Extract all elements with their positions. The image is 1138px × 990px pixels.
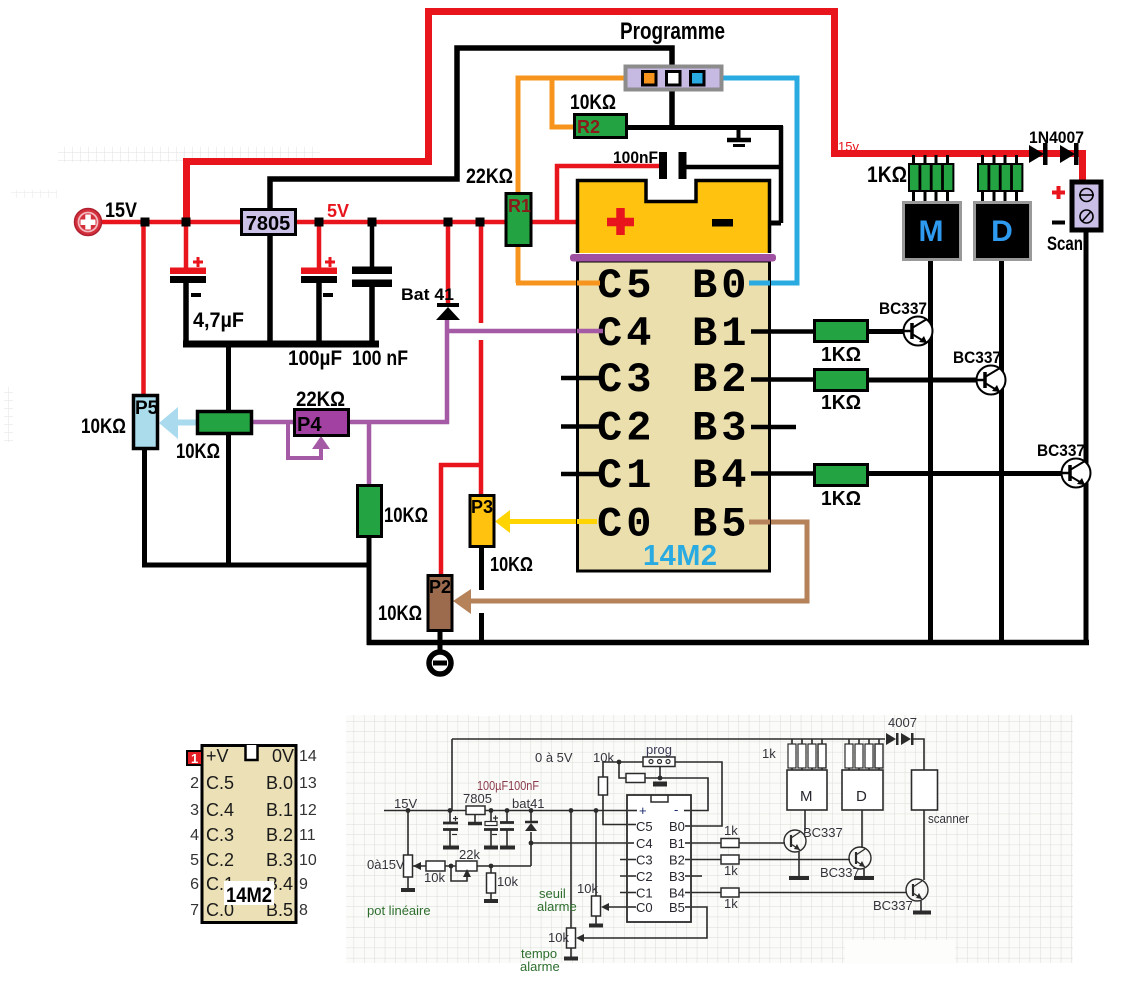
wire: D collector and emitter	[862, 810, 864, 877]
svg-text:BC337: BC337	[820, 865, 860, 880]
svg-text:10KΩ: 10KΩ	[570, 91, 616, 114]
label 15V	[105, 199, 137, 222]
svg-text:B5: B5	[669, 900, 685, 915]
diode 1N4007 (first)	[1029, 143, 1048, 165]
svg-text:1KΩ: 1KΩ	[867, 162, 907, 187]
transistor BC337 (B2)	[953, 348, 1006, 395]
svg-text:+: +	[639, 803, 647, 818]
wire: yellow C0 to P3 arrow	[495, 510, 597, 533]
transistor BC337 (B1)	[879, 299, 933, 346]
resistor 10k vertical	[487, 873, 496, 893]
svg-text:C1: C1	[597, 452, 655, 500]
wire: 22k wiper loop	[451, 866, 467, 881]
svg-text:1k: 1k	[724, 823, 738, 838]
wire: top line diodes to scanner	[913, 739, 924, 770]
IC 14M2 battery header	[578, 181, 770, 254]
svg-text:7805: 7805	[246, 213, 291, 235]
svg-text:C3: C3	[636, 853, 653, 868]
svg-text:100µF100nF: 100µF100nF	[477, 778, 539, 793]
scan-paper artifact strip top	[11, 147, 320, 198]
wire: black 10K bottom to ground rail	[367, 537, 372, 645]
svg-text:BC337: BC337	[953, 348, 1001, 367]
wire: black P5 bottom	[142, 449, 147, 565]
svg-text:B.1: B.1	[266, 800, 293, 820]
svg-text:alarme: alarme	[520, 959, 560, 974]
pinout right pin names	[266, 746, 294, 920]
wire: black D collector column	[999, 259, 1004, 644]
wire: C pin stubs	[620, 860, 636, 893]
svg-text:B4: B4	[669, 886, 685, 901]
ground bars row	[443, 846, 515, 850]
pot tempo alarme	[564, 928, 584, 959]
trimmer 22k	[456, 861, 477, 877]
ground bar 10k	[484, 899, 498, 903]
transistor BC337 (B4)	[1037, 441, 1091, 488]
wire: black 7805 center to ground bus	[267, 236, 273, 344]
transistor BC337 scanner (small)	[906, 879, 931, 913]
ground bar prog	[653, 782, 667, 787]
wire: C4 line	[531, 842, 633, 844]
scan-paper artifact strip left	[4, 387, 13, 442]
resistor 10K (horizontal, P5 feed)	[176, 412, 252, 464]
wire: red 15V/5V rail	[99, 220, 601, 225]
svg-text:BC337: BC337	[873, 898, 913, 913]
svg-text:15v: 15v	[838, 139, 859, 154]
wire: comb risers M	[792, 739, 822, 770]
svg-text:10KΩ: 10KΩ	[81, 415, 126, 438]
svg-text:22k: 22k	[459, 847, 480, 862]
svg-text:4007: 4007	[888, 715, 917, 730]
wire: C1 stub	[561, 472, 600, 477]
svg-text:15V: 15V	[394, 796, 417, 811]
pinout left pin names	[206, 746, 234, 920]
svg-text:P3: P3	[471, 497, 493, 517]
svg-text:BC337: BC337	[879, 299, 927, 318]
potentiometer P4 22K	[295, 388, 349, 436]
svg-text:100µF: 100µF	[288, 347, 342, 370]
svg-text:10KΩ: 10KΩ	[176, 440, 220, 463]
svg-text:C4: C4	[597, 310, 655, 358]
svg-text:1KΩ: 1KΩ	[821, 392, 861, 414]
label Scan	[1047, 234, 1083, 255]
resistor 10k to 22k link	[413, 865, 531, 867]
label 15v (small red)	[838, 139, 859, 154]
capacitor 100nF (small)	[500, 823, 514, 830]
svg-text:C2: C2	[597, 405, 655, 453]
pot 0a15V branch	[407, 811, 409, 890]
wire: cap2 leads	[490, 811, 492, 847]
IC minus terminal	[712, 219, 733, 227]
comb resistor network M (small)	[788, 744, 826, 768]
module D (small)	[842, 770, 883, 810]
pot seuil alarme	[589, 896, 609, 926]
svg-text:+V: +V	[206, 746, 229, 766]
potentiometer P3	[470, 496, 533, 577]
svg-text:B2: B2	[692, 356, 750, 404]
wire: blue serial-out net to B0	[703, 78, 797, 283]
pinout 14M2 name	[224, 881, 274, 907]
connector Programme (3-pin header)	[626, 67, 722, 90]
capacitor 100uF	[288, 257, 342, 370]
wire: orange programming serial-in net	[516, 78, 650, 283]
diode 1N4007 (second)	[1060, 143, 1079, 165]
svg-text:Scan: Scan	[1047, 234, 1083, 255]
svg-text:12: 12	[299, 802, 317, 819]
resistor R2 10K	[570, 91, 627, 138]
svg-text:pot linéaire: pot linéaire	[367, 903, 431, 918]
potentiometer P2	[378, 576, 452, 631]
IC pin labels column C	[597, 262, 655, 549]
wire: C5 net riser	[603, 762, 643, 825]
pot lineaire 0a15V	[404, 855, 422, 877]
connector Scan	[1072, 182, 1101, 230]
svg-text:C5: C5	[597, 262, 655, 310]
svg-text:C0: C0	[636, 900, 653, 915]
svg-text:BC337: BC337	[1037, 441, 1085, 460]
svg-text:scanner: scanner	[928, 811, 970, 826]
wire: brown B5 to P2 arrow	[453, 522, 807, 614]
svg-text:B.0: B.0	[266, 773, 293, 793]
label 14M2 (cyan)	[643, 540, 718, 572]
resistor 1k B4 (small)	[721, 888, 739, 897]
comb resistor network D (small)	[845, 744, 883, 768]
wire: B3 stub	[750, 425, 796, 430]
svg-text:M: M	[800, 788, 813, 805]
junction dots on 5V rail	[141, 218, 485, 227]
pinout left pin numbers	[190, 775, 199, 919]
svg-text:22KΩ: 22KΩ	[296, 388, 345, 411]
connector prog (small)	[643, 757, 675, 767]
Scan minus label	[1052, 221, 1065, 225]
svg-text:13: 13	[299, 775, 317, 792]
resistor 1K (B4)	[815, 465, 868, 511]
wire: red to P5	[141, 222, 146, 395]
IC 14M2 pinout package	[202, 746, 296, 923]
svg-text:B3: B3	[692, 405, 750, 453]
wire: black 100nF cap leads	[370, 224, 375, 344]
resistor array pins (D)	[983, 155, 1017, 203]
wire: light blue arrow to P5	[159, 407, 197, 439]
transistor BC337 M (small)	[784, 830, 809, 878]
svg-text:10: 10	[299, 852, 317, 869]
resistor 1K (B1)	[815, 321, 868, 367]
svg-text:10KΩ: 10KΩ	[384, 504, 428, 527]
svg-text:C.5: C.5	[206, 773, 234, 793]
wire: tempo pot branch	[570, 811, 572, 959]
svg-text:P5: P5	[135, 398, 159, 419]
wire: black programming line 7805 to connector	[270, 48, 672, 210]
wire: thick red 15V loop from rail to top and to scan connector	[187, 12, 1083, 224]
svg-text:14: 14	[299, 748, 317, 765]
ground symbol (programming)	[727, 128, 751, 146]
wire: red to P3 and P2 (gap at purple crossing)	[439, 224, 483, 575]
IC plus terminal	[607, 208, 634, 235]
resistor array 1K x4 (M)	[909, 164, 953, 191]
wire: black ground bus under caps	[183, 341, 379, 348]
wire: black M collector column	[928, 259, 933, 644]
diode 4007 pair (small)	[886, 733, 914, 745]
pinout notch	[246, 745, 258, 760]
svg-text:9: 9	[299, 876, 308, 893]
scanned schematic grid background	[346, 700, 1073, 964]
pin stubs over IC body	[577, 283, 770, 522]
wire: black vertical from bus through 10K resistor	[226, 344, 231, 565]
svg-text:B2: B2	[669, 853, 685, 868]
wire: M collector and emitter	[799, 810, 805, 877]
svg-text:10k: 10k	[593, 750, 614, 765]
resistor 1K (B2)	[815, 370, 868, 415]
transistor BC337 D (small)	[849, 847, 874, 878]
junction dots (small schematic)	[406, 760, 663, 869]
IC pin labels column B	[692, 262, 750, 549]
wire: B4 to 1K and transistor	[750, 471, 1064, 476]
wire: main rail 15V	[384, 810, 641, 812]
wire: black bottom ground rail	[367, 640, 1089, 646]
svg-text:1k: 1k	[724, 863, 738, 878]
resistor 10k vertical (0 a 5V)	[599, 777, 608, 795]
svg-text:alarme: alarme	[537, 899, 577, 914]
wire: comb risers D	[849, 739, 879, 770]
wire: red to 100uF	[317, 222, 322, 268]
svg-text:1: 1	[191, 751, 198, 766]
wire: red 100nF to +	[557, 166, 660, 222]
small IC inner pin stubs	[628, 811, 690, 908]
svg-text:M: M	[919, 215, 944, 248]
svg-text:6: 6	[190, 876, 199, 893]
ground terminal (circle minus)	[429, 652, 451, 674]
svg-text:B3: B3	[669, 869, 685, 884]
svg-text:R2: R2	[577, 117, 600, 137]
regulator 7805	[242, 210, 296, 236]
display module M	[904, 203, 961, 260]
svg-text:1k: 1k	[724, 896, 738, 911]
potentiometer P5	[81, 396, 159, 449]
svg-text:11: 11	[299, 827, 316, 844]
wire: bat41 branch vertical	[530, 811, 532, 867]
diode bat41 (small)	[525, 822, 538, 831]
resistor 10k horizontal (pot feed)	[426, 861, 445, 871]
wire: black 4,7uF to ground bus	[183, 282, 189, 344]
svg-text:B1: B1	[692, 310, 750, 358]
svg-text:B4: B4	[692, 452, 750, 500]
wire: B1 row	[686, 842, 785, 844]
IC 14M2 body	[578, 261, 770, 571]
wire: riser to top line	[451, 739, 453, 811]
label 1N4007	[1029, 128, 1084, 147]
svg-text:P4: P4	[297, 414, 322, 436]
svg-text:10KΩ: 10KΩ	[490, 554, 533, 576]
wire: black connector center to ground rail	[626, 88, 783, 128]
label 5V	[327, 201, 349, 221]
svg-text:D: D	[856, 788, 867, 805]
module scanner (small)	[912, 770, 938, 810]
svg-text:C.3: C.3	[206, 825, 234, 845]
pin 1 marker	[187, 751, 202, 766]
wire: red to 4,7uF	[184, 222, 189, 268]
IC box (small)	[627, 795, 691, 922]
wire: B5 to tempo wiper	[583, 907, 707, 938]
svg-text:1KΩ: 1KΩ	[821, 344, 861, 366]
svg-text:5V: 5V	[327, 201, 349, 221]
wire: red to Bat41	[446, 222, 451, 304]
Scan plus label	[1052, 186, 1065, 199]
diode Bat 41	[401, 285, 460, 320]
small schematic text labels	[367, 715, 970, 945]
ground bar pot lineaire	[401, 888, 415, 892]
svg-text:C5: C5	[636, 819, 653, 834]
wire: B2 row	[686, 859, 850, 861]
wire: seuil pot branch	[595, 811, 597, 926]
svg-text:B.2: B.2	[266, 825, 293, 845]
IC purple separator bar	[570, 254, 776, 262]
display module D	[975, 203, 1031, 260]
wire: black 100uF to ground bus	[316, 282, 322, 344]
svg-text:14M2: 14M2	[226, 884, 272, 907]
svg-text:D: D	[991, 215, 1013, 248]
wire: prog ladder	[619, 762, 708, 811]
svg-text:B1: B1	[669, 836, 685, 851]
wire: B4 row	[686, 892, 907, 894]
wire: scanner collector and emitter	[921, 810, 924, 911]
capacitor C1 (small)	[443, 816, 458, 835]
wire: B3 stub	[686, 875, 702, 877]
svg-text:10k: 10k	[548, 930, 569, 945]
svg-text:C3: C3	[597, 356, 655, 404]
svg-text:100nF: 100nF	[613, 148, 658, 167]
svg-text:0à15V: 0à15V	[367, 857, 405, 872]
pinout right pin numbers	[299, 748, 317, 919]
svg-text:P2: P2	[429, 577, 451, 597]
svg-text:B.3: B.3	[266, 850, 293, 870]
capacitor 100nF (power rail)	[352, 267, 408, 371]
wire: C0 to seuil wiper	[608, 906, 636, 908]
resistor 10K (vertical, below P4)	[358, 486, 429, 537]
svg-text:bat41: bat41	[512, 796, 545, 811]
wire: black horizontal P5-bottom link	[142, 563, 371, 568]
resistor R1 22K	[466, 165, 531, 246]
svg-text:14M2: 14M2	[643, 540, 718, 572]
IC small pin labels	[636, 802, 685, 915]
svg-text:5: 5	[190, 852, 199, 869]
capacitor 100uF (small)	[484, 816, 498, 835]
svg-text:1k: 1k	[762, 746, 776, 761]
svg-text:2: 2	[190, 775, 199, 792]
wire: black 100nF2 right plate to minus vertical	[686, 165, 781, 170]
label Programme	[620, 18, 725, 45]
svg-text:C.4: C.4	[206, 800, 234, 820]
wire: 10k vertical branch	[490, 866, 492, 900]
svg-text:7805: 7805	[463, 791, 492, 806]
resistor 1k B2 (small)	[721, 855, 739, 864]
resistor array pins (M)	[914, 155, 948, 203]
module M (small)	[787, 770, 827, 810]
svg-text:C.2: C.2	[206, 850, 234, 870]
svg-text:C4: C4	[636, 836, 653, 851]
wire: cap1 leads	[449, 811, 451, 847]
wire: C3 stub	[561, 376, 600, 381]
svg-text:C2: C2	[636, 869, 653, 884]
svg-text:22KΩ: 22KΩ	[466, 165, 513, 188]
wire: 7805 tab	[474, 814, 476, 822]
svg-text:10k: 10k	[577, 881, 598, 896]
wire: black vertical to minus terminal	[738, 126, 781, 223]
svg-text:BC337: BC337	[803, 825, 843, 840]
svg-text:100 nF: 100 nF	[352, 347, 408, 370]
resistor array 1K x4 (D)	[978, 164, 1022, 191]
regulator 7805 (small)	[466, 806, 485, 824]
svg-text:8: 8	[299, 902, 308, 919]
svg-text:4,7µF: 4,7µF	[193, 309, 244, 332]
capacitor 100nF (programming)	[613, 148, 687, 179]
wire: purple P4 wiper arrow	[288, 424, 330, 458]
svg-text:1KΩ: 1KΩ	[821, 488, 861, 510]
capacitor 4,7uF	[170, 257, 244, 332]
svg-text:C1: C1	[636, 886, 653, 901]
wire: black P2 bottom to ground terminal	[438, 630, 443, 652]
svg-text:4: 4	[190, 827, 199, 844]
wire: top 15v line	[452, 738, 885, 740]
svg-text:prog: prog	[646, 742, 672, 757]
wire: purple net Bat41 to C4 and P4	[251, 318, 603, 486]
wire: B1 to 1K and transistor	[750, 329, 906, 334]
svg-text:0V: 0V	[272, 746, 294, 766]
svg-text:10k: 10k	[424, 870, 445, 885]
svg-text:3: 3	[190, 802, 199, 819]
svg-text:R1: R1	[508, 196, 531, 216]
svg-text:7: 7	[190, 902, 199, 919]
svg-text:15V: 15V	[105, 199, 137, 222]
wire: cap3 leads	[506, 811, 508, 847]
wire: black Scan column	[1084, 229, 1089, 644]
15V plus terminal symbol	[75, 209, 102, 236]
svg-text:B0: B0	[692, 262, 750, 310]
label 1KOhm (resistor arrays)	[867, 162, 907, 187]
svg-text:10k: 10k	[497, 874, 518, 889]
svg-text:0 à 5V: 0 à 5V	[535, 750, 573, 765]
resistor 1k B1 (small)	[721, 839, 739, 848]
wire: C2 stub	[561, 424, 600, 429]
small schematic green labels	[367, 886, 577, 974]
svg-text:B0: B0	[669, 819, 685, 834]
wire: black P3 bottom	[479, 547, 484, 645]
wire: B2 to 1K and transistor	[750, 377, 979, 382]
resistor horizontal (prog)	[626, 774, 645, 783]
svg-text:Programme: Programme	[620, 18, 725, 45]
svg-text:Bat 41: Bat 41	[401, 285, 454, 304]
wire: prog right to B0	[675, 762, 722, 826]
svg-text:10KΩ: 10KΩ	[378, 602, 422, 625]
svg-text:-: -	[674, 802, 678, 817]
